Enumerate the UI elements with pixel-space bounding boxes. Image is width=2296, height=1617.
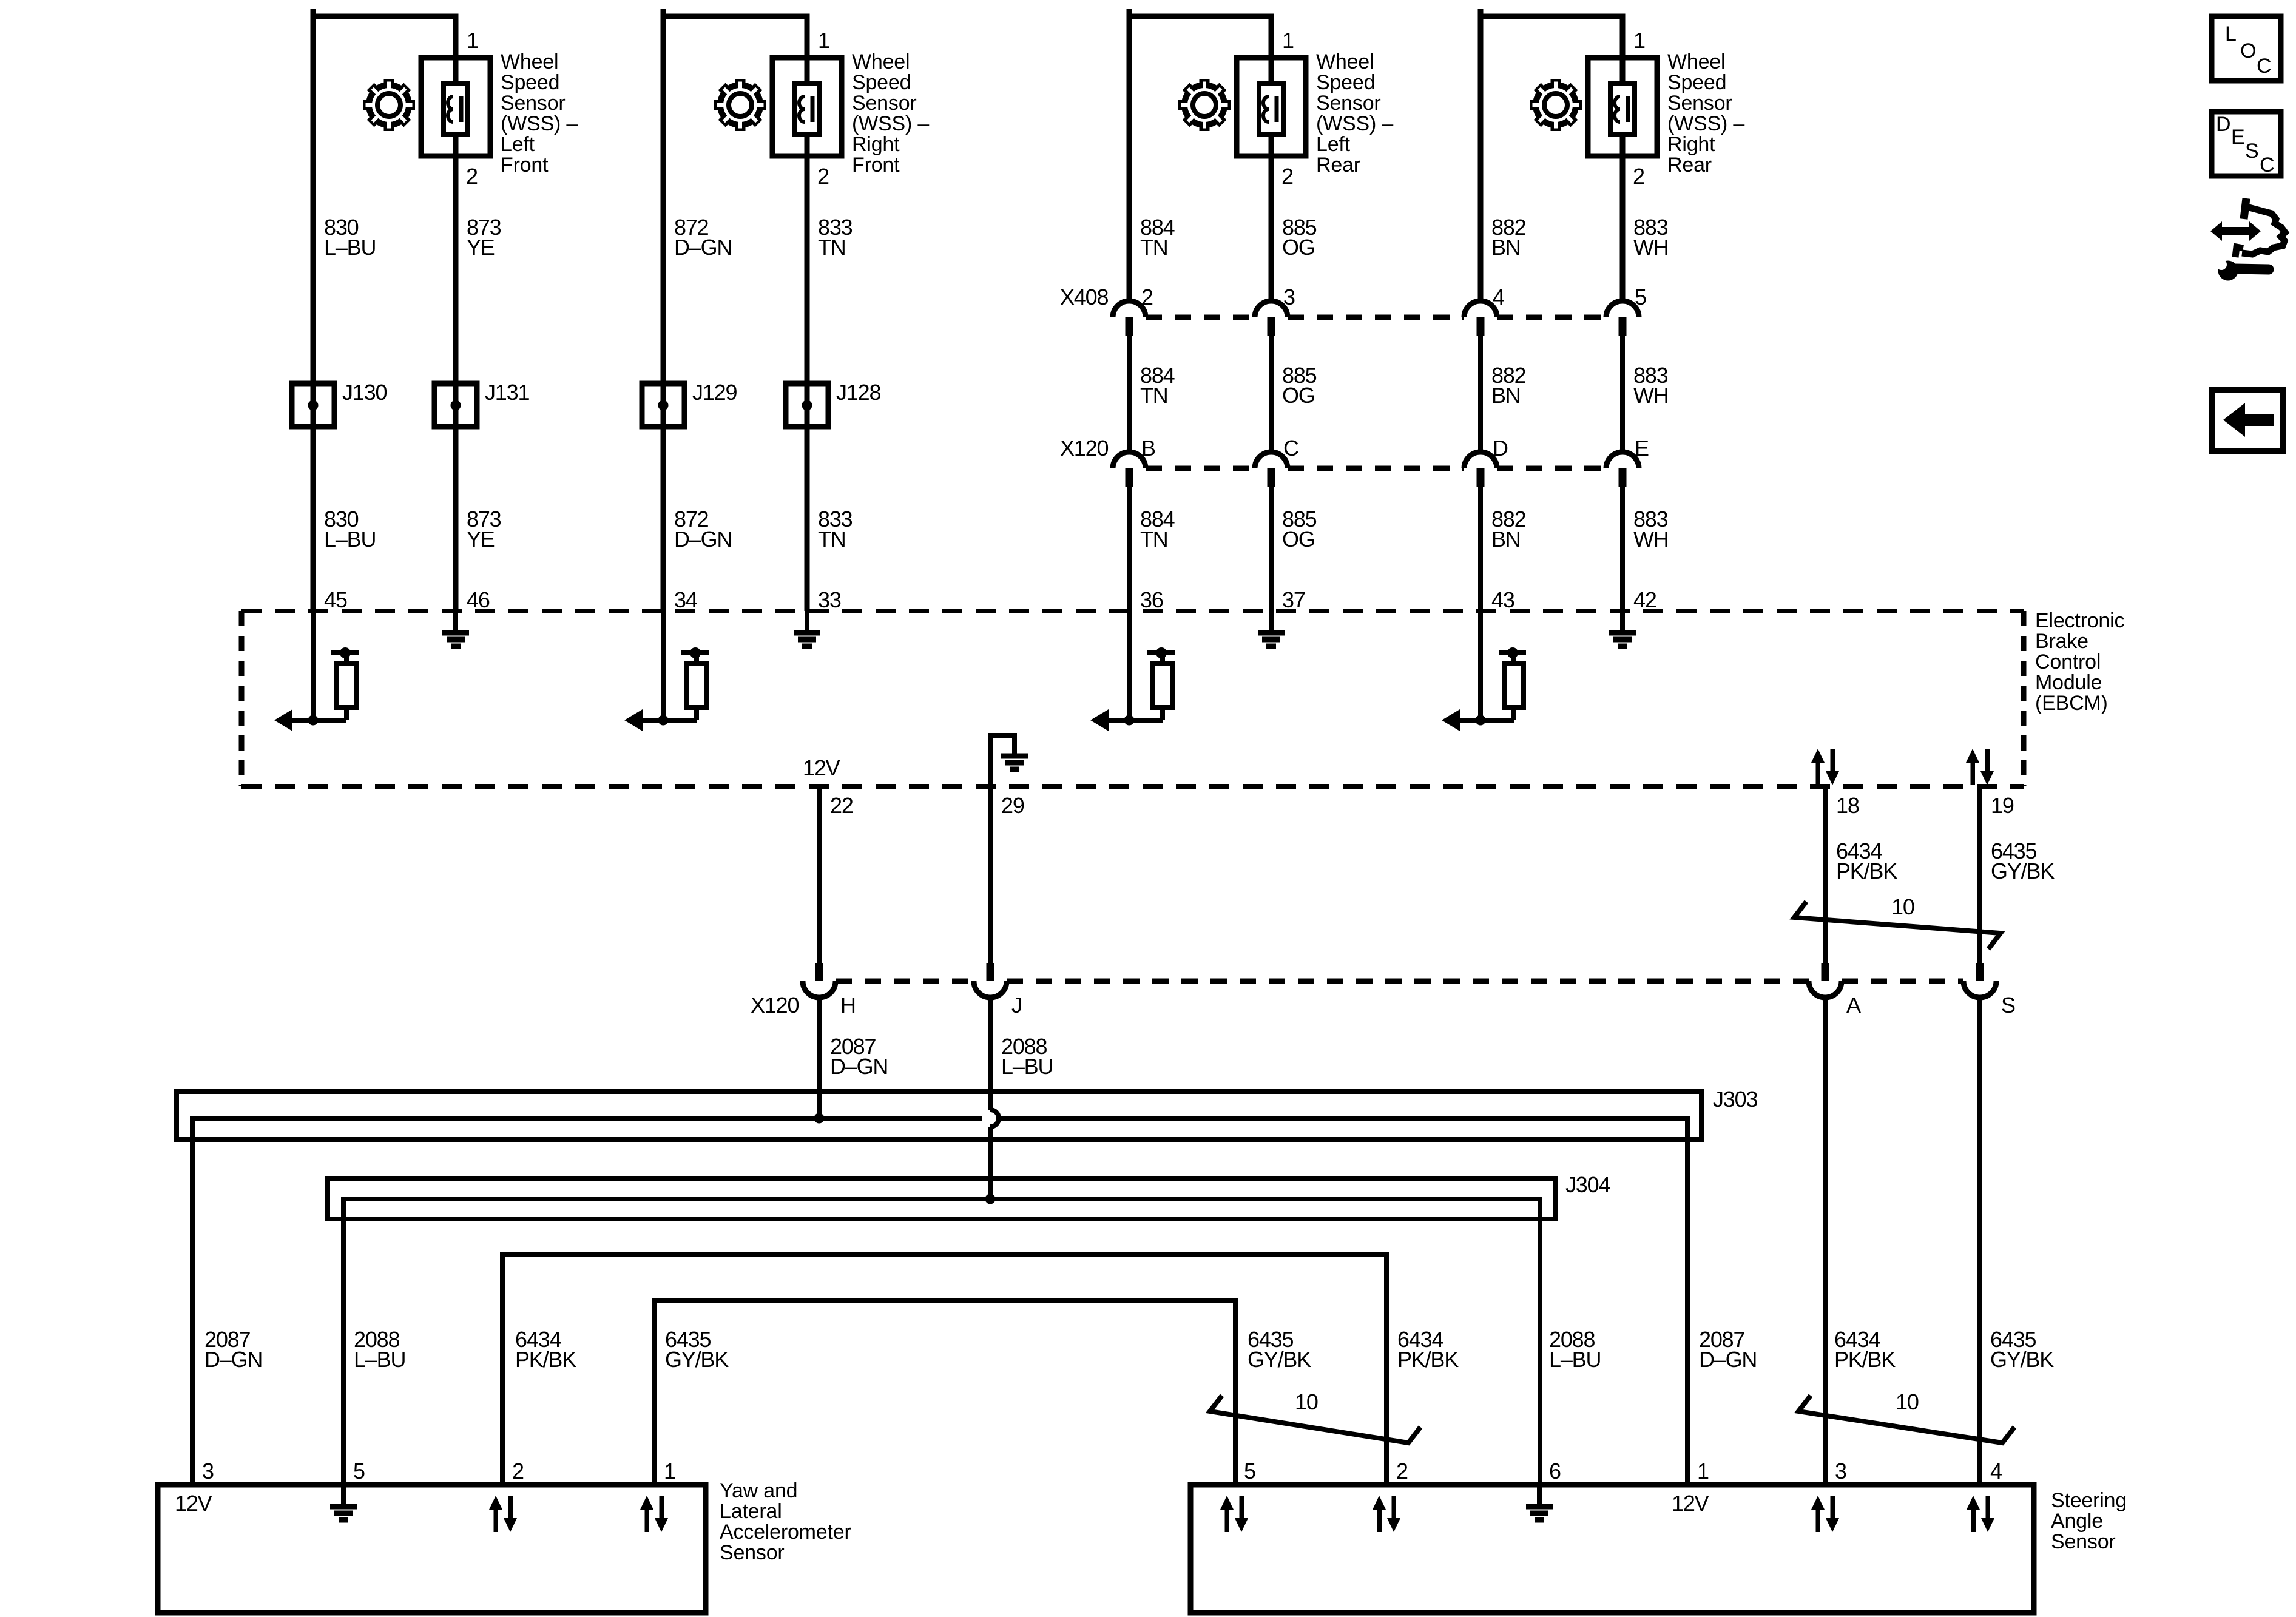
svg-text:C: C (1283, 436, 1298, 461)
svg-text:D: D (2216, 113, 2230, 136)
svg-text:46: 46 (467, 587, 490, 612)
svg-text:BN: BN (1491, 383, 1521, 408)
steering serial data arrows pin 2 (1373, 1496, 1400, 1532)
svg-text:GY/BK: GY/BK (1248, 1347, 1311, 1372)
steering internal ground (1526, 1485, 1553, 1520)
svg-text:12V: 12V (175, 1491, 212, 1516)
wire between X408 and X120 (1620, 336, 1625, 452)
svg-text:(EBCM): (EBCM) (2035, 692, 2108, 715)
component name: Wheel Speed Sensor 3 (1316, 50, 1393, 177)
EBCM internal ground (442, 611, 469, 646)
svg-text:S: S (2001, 993, 2015, 1018)
svg-text:10: 10 (1896, 1389, 1919, 1414)
connector X408 pin 2 (1113, 285, 1153, 336)
wheel speed sensor 4 body (1588, 58, 1657, 156)
svg-text:J304: J304 (1565, 1172, 1610, 1197)
svg-text:Sensor: Sensor (1667, 92, 1732, 115)
svg-text:42: 42 (1633, 587, 1656, 612)
svg-text:5: 5 (1635, 285, 1646, 309)
EBCM internal ground (1258, 611, 1285, 646)
svg-text:10: 10 (1891, 894, 1914, 919)
connector X408 pin 5 (1606, 285, 1646, 336)
connector X120 pin S (1963, 963, 2015, 1018)
back arrow icon box (2212, 390, 2283, 451)
wheel speed sensor 1 body (421, 58, 490, 156)
splice J131 (434, 380, 529, 427)
svg-text:J130: J130 (342, 380, 387, 405)
connector X120 pin D (1464, 436, 1508, 487)
svg-text:Speed: Speed (1667, 71, 1726, 94)
svg-text:Steering: Steering (2051, 1489, 2127, 1512)
svg-text:OG: OG (1282, 527, 1315, 552)
svg-text:L–BU: L–BU (324, 235, 376, 260)
svg-text:J128: J128 (836, 380, 880, 405)
splice pack J303 box (177, 1092, 1701, 1139)
wire 6434 pin18 to X120 A (1823, 786, 1828, 963)
svg-text:Wheel: Wheel (501, 50, 558, 73)
wire labels 2087/2088 below EBCM (830, 1034, 888, 1079)
svg-text:X408: X408 (1060, 285, 1108, 309)
wire 2088 X120 J to J304 (hops over J303 bus) (990, 998, 999, 1199)
EBCM internal ground at pin 29 (990, 734, 1028, 786)
svg-text:OG: OG (1282, 383, 1315, 408)
wheel speed sensor 3 body (1237, 58, 1306, 156)
svg-text:2: 2 (1141, 285, 1153, 309)
svg-text:X120: X120 (1060, 436, 1108, 461)
splice J130 (292, 380, 387, 427)
svg-text:WH: WH (1633, 235, 1669, 260)
wire between X408 and X120 (1478, 336, 1483, 452)
svg-text:Sensor: Sensor (501, 92, 566, 115)
harness break symbol 10 (steering pins 3/4) (1798, 1389, 2014, 1443)
wire label 6435 GY/BK bottom (665, 1327, 729, 1372)
wire between X408 and X120 (1269, 336, 1274, 452)
svg-text:YE: YE (467, 527, 495, 552)
wire labels 6434/6435 below EBCM (1836, 839, 1897, 883)
svg-text:PK/BK: PK/BK (1836, 859, 1897, 883)
svg-text:Accelerometer: Accelerometer (720, 1521, 851, 1544)
EBCM internal resistor/arrow element (1442, 611, 1526, 731)
svg-text:45: 45 (324, 587, 347, 612)
svg-text:L–BU: L–BU (1549, 1347, 1601, 1372)
wire label 6434 PK/BK bottom (515, 1327, 576, 1372)
wire 6434 yaw pin2 to steering pin2 (502, 1255, 1386, 1482)
wire label 2087 D–GN bottom (204, 1327, 262, 1372)
svg-text:12V: 12V (803, 755, 840, 780)
wire 6435 yaw pin1 to steering pin5 (654, 1300, 1235, 1482)
component name: Steering Angle Sensor (2051, 1489, 2127, 1553)
wire end tick sensor 4 (1478, 9, 1484, 16)
steering serial data arrows pin 4 (1967, 1496, 1994, 1532)
svg-text:22: 22 (830, 793, 853, 818)
wire: pin 2 lead of sensor 2 (805, 133, 810, 611)
wire label 884 TN row1 (1140, 215, 1175, 260)
EBCM dashed border bottom (241, 784, 2024, 789)
J304 internal bus wire to yaw pin5 and steering pin6 (343, 1199, 1540, 1482)
svg-text:J129: J129 (692, 380, 737, 405)
wire label 872 D–GN row3 (674, 507, 732, 552)
wire label 833 TN row1 (818, 215, 853, 260)
junction 2088/J304 (985, 1194, 996, 1204)
wire label 873 YE row1 (467, 215, 501, 260)
svg-text:D: D (1493, 436, 1508, 461)
wire: top bracket of wheel speed sensor 3 (1129, 16, 1271, 301)
wire label 2088 L–BU bottom (354, 1327, 405, 1372)
dashed harness line X120 bottom (836, 979, 1963, 984)
wire label 884 TN row2 (1140, 363, 1175, 408)
steering serial data arrows pin 3 (1811, 1496, 1839, 1532)
dashed harness line X120 top (1146, 466, 1606, 471)
wire label 830 L–BU row1 (324, 215, 376, 260)
svg-text:Speed: Speed (852, 71, 911, 94)
svg-text:GY/BK: GY/BK (665, 1347, 729, 1372)
wire label 884 TN row3 (1140, 507, 1175, 552)
component name: Yaw and Lateral Accelerometer Sensor (720, 1479, 851, 1564)
LOC icon box (2212, 16, 2281, 81)
wire label 882 BN row3 (1491, 507, 1526, 552)
svg-text:L–BU: L–BU (1001, 1054, 1053, 1079)
svg-text:6: 6 (1549, 1459, 1561, 1484)
svg-text:L–BU: L–BU (354, 1347, 405, 1372)
svg-text:19: 19 (1991, 793, 2014, 818)
Yaw and Lateral Accelerometer Sensor box (158, 1485, 706, 1613)
svg-text:Lateral: Lateral (720, 1500, 782, 1523)
connector X408 pin 4 (1464, 285, 1504, 336)
connector X120 pin C (1255, 436, 1298, 487)
svg-text:Wheel: Wheel (1316, 50, 1374, 73)
wire label 6434 PK/BK bottom (1397, 1327, 1459, 1372)
svg-text:1: 1 (1697, 1459, 1709, 1484)
wire label 833 TN row3 (818, 507, 853, 552)
DESC icon box (2212, 112, 2281, 177)
wire end tick sensor 3 (1127, 9, 1132, 16)
svg-text:D–GN: D–GN (204, 1347, 262, 1372)
svg-text:Rear: Rear (1667, 154, 1712, 177)
svg-text:10: 10 (1295, 1389, 1318, 1414)
svg-text:Left: Left (501, 133, 535, 156)
yaw serial data arrows pin 1 (640, 1496, 668, 1532)
svg-text:Front: Front (852, 154, 900, 177)
connector X120 pin E (1606, 436, 1649, 487)
svg-text:1: 1 (1633, 28, 1645, 53)
svg-text:Right: Right (1667, 133, 1715, 156)
svg-text:WH: WH (1633, 527, 1669, 552)
svg-text:PK/BK: PK/BK (515, 1347, 576, 1372)
gear icon of sensor 3 (1178, 79, 1231, 131)
wire label 6435 GY/BK bottom (1990, 1327, 2054, 1372)
svg-text:S: S (2245, 140, 2258, 163)
svg-text:D–GN: D–GN (830, 1054, 888, 1079)
wire: pin 2 lead of sensor 4 (1620, 133, 1626, 301)
yaw internal ground (330, 1485, 357, 1520)
svg-text:B: B (1141, 436, 1155, 461)
svg-text:C: C (2257, 55, 2271, 78)
svg-text:TN: TN (1140, 235, 1168, 260)
splice pack J304 box (328, 1178, 1556, 1219)
connector X120 pin J (974, 963, 1022, 1018)
connector X120 pin A (1809, 963, 1861, 1018)
svg-text:J303: J303 (1713, 1087, 1757, 1112)
svg-text:TN: TN (818, 527, 846, 552)
wire label 885 OG row3 (1282, 507, 1317, 552)
wire label 882 BN row2 (1491, 363, 1526, 408)
wire between X120 and EBCM (1620, 487, 1625, 611)
EBCM serial data arrows pin 18 (1811, 749, 1839, 785)
wire label 830 L–BU row3 (324, 507, 376, 552)
diagnostic arrow-wrench icon (2210, 198, 2285, 281)
wire label 882 BN row1 (1491, 215, 1526, 260)
svg-text:34: 34 (674, 587, 697, 612)
EBCM dashed border right (2021, 611, 2027, 786)
svg-text:1: 1 (664, 1459, 675, 1484)
wire label 883 WH row2 (1633, 363, 1669, 408)
wire 2087 X120 H to J303 (817, 998, 822, 1118)
J303 internal bus wire to yaw pin3 and steering pin1 (192, 1118, 1687, 1482)
svg-text:Electronic: Electronic (2035, 609, 2124, 632)
wire 6435 X120 S to steering pin 4 (1977, 998, 1982, 1482)
component name: Electronic Brake Control Module (EBCM) (2035, 609, 2124, 715)
component name: Wheel Speed Sensor 4 (1667, 50, 1744, 177)
component name: Wheel Speed Sensor 2 (852, 50, 929, 177)
EBCM dashed border top (241, 609, 2024, 613)
svg-text:(WSS) –: (WSS) – (501, 112, 578, 135)
svg-text:2: 2 (817, 164, 829, 189)
svg-text:29: 29 (1001, 793, 1024, 818)
wire 2087 pin22 to X120 H (817, 786, 822, 963)
svg-text:OG: OG (1282, 235, 1315, 260)
wire label 883 WH row1 (1633, 215, 1669, 260)
wire between X120 and EBCM (1269, 487, 1274, 611)
svg-text:Front: Front (501, 154, 549, 177)
svg-text:3: 3 (1835, 1459, 1846, 1484)
connector X120 pin B (1113, 436, 1155, 487)
wire end tick sensor 1 (311, 9, 316, 16)
connector X120 pin H (803, 963, 856, 1018)
svg-text:1: 1 (1282, 28, 1294, 53)
svg-text:(WSS) –: (WSS) – (852, 112, 929, 135)
svg-text:E: E (2231, 126, 2244, 149)
splice J128 (786, 380, 880, 427)
wire end tick sensor 2 (661, 9, 666, 16)
svg-text:Right: Right (852, 133, 900, 156)
svg-text:1: 1 (467, 28, 478, 53)
gear icon of sensor 2 (714, 79, 766, 131)
svg-text:2: 2 (1281, 164, 1293, 189)
EBCM dashed border left (239, 611, 245, 786)
svg-text:Rear: Rear (1316, 154, 1360, 177)
junction 2087/J303 (814, 1113, 825, 1124)
svg-text:PK/BK: PK/BK (1397, 1347, 1459, 1372)
harness break symbol 10 (EBCM wires) (1794, 894, 2001, 949)
svg-text:Sensor: Sensor (852, 92, 917, 115)
svg-text:J131: J131 (485, 380, 529, 405)
wire 6434 X120 A to steering pin 3 (1823, 998, 1828, 1482)
wire label 883 WH row3 (1633, 507, 1669, 552)
wire: top bracket of wheel speed sensor 2 (663, 16, 807, 611)
svg-text:(WSS) –: (WSS) – (1316, 112, 1393, 135)
harness break symbol 10 (steering pins 5/2) (1210, 1389, 1420, 1443)
wire label 872 D–GN row1 (674, 215, 732, 260)
EBCM internal ground (1609, 611, 1636, 646)
svg-text:18: 18 (1836, 793, 1859, 818)
svg-text:(WSS) –: (WSS) – (1667, 112, 1744, 135)
steering serial data arrows pin 5 (1220, 1496, 1248, 1532)
wire 6435 pin19 to X120 S (1977, 786, 1982, 963)
svg-text:36: 36 (1140, 587, 1163, 612)
EBCM internal ground (794, 611, 820, 646)
svg-text:L–BU: L–BU (324, 527, 376, 552)
svg-text:TN: TN (1140, 527, 1168, 552)
wire 2088 pin29 to X120 J (988, 786, 993, 963)
gear icon of sensor 1 (363, 79, 415, 131)
wire between X408 and X120 (1127, 336, 1132, 452)
svg-text:Speed: Speed (501, 71, 559, 94)
svg-text:C: C (2260, 154, 2274, 177)
svg-text:2: 2 (466, 164, 478, 189)
wire label 6434 PK/BK bottom (1834, 1327, 1896, 1372)
svg-text:L: L (2225, 22, 2237, 46)
svg-text:2: 2 (512, 1459, 524, 1484)
svg-text:PK/BK: PK/BK (1834, 1347, 1896, 1372)
svg-text:3: 3 (1283, 285, 1295, 309)
svg-text:Sensor: Sensor (720, 1541, 785, 1564)
svg-text:Angle: Angle (2051, 1510, 2103, 1533)
svg-text:33: 33 (818, 587, 841, 612)
svg-text:YE: YE (467, 235, 495, 260)
svg-text:Wheel: Wheel (852, 50, 910, 73)
connector X408 pin 3 (1255, 285, 1295, 336)
svg-text:3: 3 (202, 1459, 214, 1484)
splice J129 (642, 380, 737, 427)
svg-text:5: 5 (353, 1459, 365, 1484)
svg-text:BN: BN (1491, 235, 1521, 260)
svg-text:J: J (1011, 993, 1022, 1018)
wire label 6435 GY/BK bottom (1248, 1327, 1311, 1372)
wire label 2088 L–BU bottom (1549, 1327, 1601, 1372)
wire: pin 2 lead of sensor 1 (453, 133, 459, 611)
svg-text:4: 4 (1493, 285, 1504, 309)
svg-text:Wheel: Wheel (1667, 50, 1725, 73)
svg-text:D–GN: D–GN (674, 235, 732, 260)
svg-text:WH: WH (1633, 383, 1669, 408)
svg-text:Control: Control (2035, 650, 2101, 673)
wheel speed sensor 2 body (772, 58, 842, 156)
wire: pin 2 lead of sensor 3 (1269, 133, 1274, 301)
wire between X120 and EBCM (1478, 487, 1483, 611)
svg-text:12V: 12V (1672, 1491, 1709, 1516)
yaw serial data arrows pin 2 (489, 1496, 517, 1532)
wire: top bracket of wheel speed sensor 1 (313, 16, 456, 611)
svg-text:Sensor: Sensor (1316, 92, 1381, 115)
Steering Angle Sensor box (1190, 1485, 2034, 1613)
EBCM internal resistor/arrow element (624, 611, 709, 731)
svg-text:43: 43 (1491, 587, 1514, 612)
svg-text:E: E (1635, 436, 1649, 461)
wire: top bracket of wheel speed sensor 4 (1481, 16, 1622, 301)
svg-text:BN: BN (1491, 527, 1521, 552)
EBCM internal resistor/arrow element (274, 611, 359, 731)
svg-text:Speed: Speed (1316, 71, 1375, 94)
component name: Wheel Speed Sensor 1 (501, 50, 578, 177)
svg-text:2: 2 (1396, 1459, 1408, 1484)
svg-text:H: H (840, 993, 856, 1018)
svg-text:O: O (2240, 39, 2256, 62)
svg-text:1: 1 (818, 28, 829, 53)
svg-text:4: 4 (1990, 1459, 2002, 1484)
dashed harness line X408 (1146, 315, 1606, 320)
EBCM internal resistor/arrow element (1090, 611, 1175, 731)
gear icon of sensor 4 (1530, 79, 1582, 131)
wire label 885 OG row1 (1282, 215, 1317, 260)
svg-text:X120: X120 (751, 993, 799, 1018)
svg-text:A: A (1846, 993, 1861, 1018)
svg-text:TN: TN (1140, 383, 1168, 408)
EBCM serial data arrows pin 19 (1966, 749, 1994, 785)
svg-text:Brake: Brake (2035, 630, 2088, 653)
svg-text:5: 5 (1244, 1459, 1255, 1484)
svg-text:D–GN: D–GN (1699, 1347, 1757, 1372)
svg-text:Left: Left (1316, 133, 1351, 156)
svg-text:GY/BK: GY/BK (1990, 1347, 2054, 1372)
wire label 873 YE row3 (467, 507, 501, 552)
svg-text:TN: TN (818, 235, 846, 260)
svg-text:37: 37 (1282, 587, 1305, 612)
svg-text:Module: Module (2035, 671, 2102, 694)
wire label 2087 D–GN bottom (1699, 1327, 1757, 1372)
svg-text:GY/BK: GY/BK (1991, 859, 2055, 883)
svg-text:Sensor: Sensor (2051, 1530, 2116, 1553)
svg-text:Yaw and: Yaw and (720, 1479, 797, 1502)
svg-text:2: 2 (1633, 164, 1644, 189)
wire label 885 OG row2 (1282, 363, 1317, 408)
svg-text:D–GN: D–GN (674, 527, 732, 552)
wire between X120 and EBCM (1127, 487, 1132, 611)
